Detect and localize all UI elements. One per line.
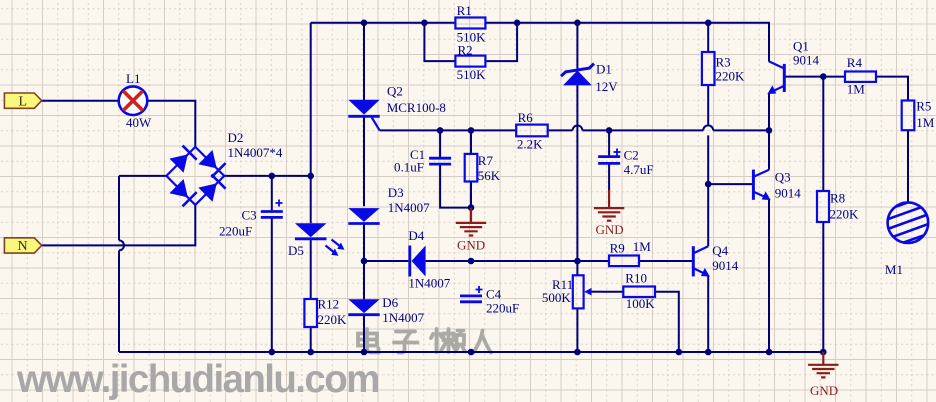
node bus / R7 xyxy=(468,127,475,134)
wire bottom rail xyxy=(119,351,823,353)
wire C3 branch top xyxy=(271,176,273,211)
svg-text:R4: R4 xyxy=(847,55,863,70)
resistor R6 xyxy=(516,110,548,152)
wire gate bus left segment xyxy=(380,129,517,131)
wire top rail left of R1 xyxy=(311,22,456,24)
node top rail / R3 xyxy=(705,20,712,27)
node C1-R7 ground xyxy=(468,204,475,211)
svg-text:C4: C4 xyxy=(486,287,502,302)
node rail / GND xyxy=(820,349,827,356)
capacitor C1 xyxy=(394,147,451,175)
wire R11 bottom lead xyxy=(576,308,578,352)
wire Q4 emitter down xyxy=(707,275,709,352)
svg-text:L: L xyxy=(19,94,28,109)
diode D4 xyxy=(408,228,450,290)
resistor R2 xyxy=(455,43,486,82)
wire Q1 emitter to bus junction xyxy=(768,93,770,130)
wire gate bus mid segment with hops xyxy=(548,129,769,131)
resistor R12 xyxy=(304,296,347,327)
wire D4 anode to R9 junction xyxy=(426,260,609,262)
svg-text:GND: GND xyxy=(596,222,624,237)
wire bus hop arc over R3 line xyxy=(703,125,713,130)
wire Q2 anode from top rail xyxy=(363,23,365,100)
wire +V vertical up to top rail xyxy=(310,23,312,176)
capacitor C4 xyxy=(460,286,519,315)
wire D6 cathode to bottom rail xyxy=(363,315,365,352)
svg-text:56K: 56K xyxy=(478,168,501,183)
svg-text:Q2: Q2 xyxy=(387,84,403,99)
resistor R8 xyxy=(817,191,859,222)
wire R2 branch right xyxy=(485,23,517,61)
bridge diode left-top xyxy=(169,146,196,173)
ground at bottom rail xyxy=(808,352,838,398)
capacitor C2 xyxy=(598,148,653,177)
node top rail / R2 right xyxy=(514,20,521,27)
potentiometer R11 xyxy=(542,275,602,308)
node bus / Q1 emitter xyxy=(766,127,773,134)
wire D1 cathode lead from rail xyxy=(576,23,578,69)
node D4 / C4 xyxy=(468,258,475,265)
svg-text:500K: 500K xyxy=(542,290,572,305)
diode D6 xyxy=(348,295,424,325)
resistor R5 xyxy=(902,99,935,131)
node rail / D6 xyxy=(361,349,368,356)
node rail / C3 xyxy=(269,349,276,356)
svg-text:GND: GND xyxy=(810,383,838,398)
svg-text:D5: D5 xyxy=(288,243,304,258)
wire D5 cathode to R12 xyxy=(310,239,312,299)
svg-text:D6: D6 xyxy=(382,295,398,310)
wire Q1 base to R4 xyxy=(785,76,845,78)
svg-text:C2: C2 xyxy=(624,148,639,163)
svg-text:MCR100-8: MCR100-8 xyxy=(387,100,446,115)
svg-text:D3: D3 xyxy=(388,185,404,200)
node +V / D5 xyxy=(307,173,314,180)
watermark chinese glyphs xyxy=(358,329,491,353)
wire Q4 base from R10 node xyxy=(602,291,623,293)
svg-text:R9: R9 xyxy=(610,241,625,256)
svg-text:510K: 510K xyxy=(457,67,487,82)
svg-text:9014: 9014 xyxy=(775,186,802,201)
svg-text:12V: 12V xyxy=(595,79,618,94)
svg-text:9014: 9014 xyxy=(712,258,739,273)
node rail / R10 xyxy=(676,349,683,356)
svg-text:R1: R1 xyxy=(457,3,472,18)
node Q3 base xyxy=(705,181,712,188)
wire Q3 base xyxy=(708,183,752,185)
node rail / Q4 emitter xyxy=(705,349,712,356)
svg-text:R8: R8 xyxy=(830,191,845,206)
port N xyxy=(4,238,41,254)
node top rail / D1 xyxy=(574,20,581,27)
svg-text:GND: GND xyxy=(457,237,485,252)
wire R3 bottom to Q3 base junction to Q4 collector xyxy=(707,85,709,246)
node Q1 base / R8 xyxy=(820,73,827,80)
wire C3 branch bottom xyxy=(271,218,273,352)
wire Q3 emitter down xyxy=(768,199,770,352)
wire C1 bottom lead to R7 bottom xyxy=(440,165,471,208)
diode D3 xyxy=(348,185,430,224)
svg-text:D2: D2 xyxy=(228,130,244,145)
zener D1 xyxy=(561,61,618,94)
svg-text:220K: 220K xyxy=(830,206,860,221)
svg-text:1M: 1M xyxy=(633,239,652,254)
lamp L1 xyxy=(119,71,152,130)
node rail / R11 xyxy=(574,349,581,356)
svg-text:L1: L1 xyxy=(126,71,140,86)
svg-text:1M: 1M xyxy=(916,115,935,130)
svg-text:R3: R3 xyxy=(716,54,731,69)
svg-text:www.jichudianlu.com: www.jichudianlu.com xyxy=(16,358,379,401)
svg-text:1N4007: 1N4007 xyxy=(382,310,424,325)
svg-text:220K: 220K xyxy=(716,68,746,83)
wire R5 to motor xyxy=(907,130,909,201)
svg-text:D4: D4 xyxy=(408,228,424,243)
svg-text:Q3: Q3 xyxy=(775,170,791,185)
resistor R9 xyxy=(609,239,651,266)
svg-text:Q4: Q4 xyxy=(712,243,728,258)
bridge rectifier D2 xyxy=(166,130,282,206)
ground below C2 xyxy=(594,190,624,237)
wire Q2 cathode to D3 xyxy=(363,117,365,207)
wire R9 to Q4 base xyxy=(639,260,693,262)
svg-text:Q1: Q1 xyxy=(793,39,809,54)
svg-text:1M: 1M xyxy=(847,82,866,97)
wire R2 branch left xyxy=(424,23,455,61)
transistor Q3 xyxy=(753,170,801,201)
bridge diode left-bottom xyxy=(169,179,196,206)
wire D5 anode lead xyxy=(310,176,312,223)
wire R3 top lead xyxy=(707,23,709,52)
wire N port to bridge bottom (hop on vertical below) xyxy=(42,205,196,246)
wire C1 top lead xyxy=(439,130,441,157)
node rail / R12 xyxy=(307,349,314,356)
svg-text:R7: R7 xyxy=(478,153,494,168)
transistor Q1 xyxy=(767,39,819,95)
wire hop arc on left vertical xyxy=(119,240,124,250)
wire top rail right of R1 xyxy=(485,23,769,62)
wire R4 to R5 xyxy=(876,77,908,101)
motor M1 xyxy=(878,196,936,277)
svg-text:4.7uF: 4.7uF xyxy=(624,162,654,177)
svg-text:R2: R2 xyxy=(458,43,473,58)
wire bridge right vertex to +V node xyxy=(224,175,311,177)
svg-text:D1: D1 xyxy=(596,61,612,76)
resistor R3 xyxy=(702,52,745,85)
wire D4 node to D4 cathode xyxy=(364,260,408,262)
wire R8 top lead xyxy=(822,77,824,191)
resistor R10 xyxy=(623,270,655,311)
svg-text:1N4007: 1N4007 xyxy=(388,200,430,215)
resistor R4 xyxy=(845,55,876,97)
resistor R1 xyxy=(455,3,486,45)
svg-text:220uF: 220uF xyxy=(486,300,519,315)
svg-text:220K: 220K xyxy=(318,312,348,327)
thyristor Q2 xyxy=(348,84,446,131)
node top rail / R2 left xyxy=(421,20,428,27)
node rail / C4 xyxy=(468,349,475,356)
wire bus hop arc over D1 line xyxy=(573,125,583,130)
transistor Q4 xyxy=(693,243,739,277)
node D4 / D3-D6 xyxy=(361,258,368,265)
svg-text:220uF: 220uF xyxy=(219,224,252,239)
wire R10 right lead xyxy=(655,292,679,352)
wire bus junction to Q3 collector xyxy=(768,130,770,169)
svg-text:R10: R10 xyxy=(625,270,647,285)
svg-text:9014: 9014 xyxy=(793,53,820,68)
svg-text:N: N xyxy=(18,239,28,254)
svg-text:M1: M1 xyxy=(885,262,903,277)
svg-text:R12: R12 xyxy=(318,296,340,311)
node top rail / Q2 anode xyxy=(361,20,368,27)
wire D1 anode down to R9 junction and R11 xyxy=(576,85,578,275)
svg-text:2.2K: 2.2K xyxy=(517,137,543,152)
wire L port to lamp xyxy=(42,100,119,102)
node bus / C1 xyxy=(437,127,444,134)
svg-text:40W: 40W xyxy=(126,115,152,130)
node +V / C3 xyxy=(269,173,276,180)
resistor R7 xyxy=(465,153,501,183)
wire lamp to bridge top xyxy=(147,101,195,147)
wire C2 bottom lead xyxy=(608,164,610,190)
svg-text:R5: R5 xyxy=(916,99,931,114)
svg-text:100K: 100K xyxy=(626,296,656,311)
capacitor C3 xyxy=(219,200,283,239)
svg-text:R6: R6 xyxy=(518,110,534,125)
wire C2 top lead xyxy=(608,130,610,156)
svg-text:C3: C3 xyxy=(242,208,257,223)
svg-text:1N4007: 1N4007 xyxy=(408,275,450,290)
bridge diode top-right xyxy=(198,150,225,177)
bridge diode bottom-right xyxy=(198,175,225,202)
wire R12 bottom lead xyxy=(310,327,312,352)
port L xyxy=(4,93,41,109)
svg-text:0.1uF: 0.1uF xyxy=(394,160,424,175)
wire left vertical with hop over N wire xyxy=(118,176,120,352)
wire D3 cathode to D4 node xyxy=(363,224,365,300)
svg-text:1N4007*4: 1N4007*4 xyxy=(228,145,283,160)
wire R7 bottom lead xyxy=(470,182,472,208)
ground below R7/C1 xyxy=(456,208,486,253)
node rail / Q3 emitter xyxy=(766,349,773,356)
wire bridge left vertex to left vertical xyxy=(119,175,166,177)
wire R8 bottom lead xyxy=(822,222,824,352)
wire R7 top lead xyxy=(470,130,472,154)
node bus / C2 xyxy=(606,127,613,134)
LED D5 xyxy=(288,223,345,258)
node R9 / D1-R11 xyxy=(574,258,581,265)
